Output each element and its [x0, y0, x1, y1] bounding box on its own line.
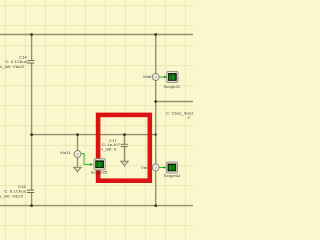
- node junction H1-V1: [30, 33, 33, 36]
- background canvas: [0, 0, 193, 240]
- label Vm11: [60, 150, 71, 155]
- signal wire Vm11 to Scope25: [81, 154, 93, 166]
- svg-text:Vm11: Vm11: [60, 150, 71, 155]
- ground below C17: [121, 161, 129, 167]
- label C17 values: [101, 138, 120, 152]
- label Scope25: [91, 169, 108, 174]
- svg-text:v_init: 0: v_init: 0: [101, 147, 117, 152]
- label C14 values: [0, 55, 27, 69]
- signal wire Vm6 to Scope41: [160, 76, 167, 79]
- wire C17 branch upper: [124, 135, 126, 144]
- wire V1 lower segment: [31, 193, 33, 206]
- svg-text:Scope25: Scope25: [91, 169, 108, 174]
- label Scope41: [163, 84, 180, 89]
- wire V2 lower segment: [155, 171, 157, 206]
- svg-text:v_init: Vdc/2: v_init: Vdc/2: [0, 193, 24, 198]
- node junction H4-V2: [154, 204, 157, 207]
- scope Scope42: [166, 162, 177, 173]
- node junction H3-V2: [155, 133, 157, 135]
- node junction H1-V2: [154, 33, 157, 36]
- wire H3 middle bus: [32, 134, 156, 136]
- label Scope42: [164, 173, 181, 178]
- voltmeter Vm6: [152, 74, 159, 81]
- capacitor C15 plates: [27, 190, 34, 192]
- wire H1 top bus: [0, 34, 193, 36]
- wire H2 right stub: [156, 101, 193, 103]
- svg-text:v:: v:: [188, 115, 191, 120]
- svg-text:Scope41: Scope41: [163, 84, 180, 89]
- node junction H3-C17: [123, 133, 126, 136]
- wire V1 middle segment: [31, 63, 33, 190]
- label Vm6: [143, 74, 152, 79]
- wire V2 upper segment: [155, 35, 157, 74]
- wire C17 branch lower: [124, 147, 126, 161]
- capacitor C14 plates: [27, 61, 34, 63]
- capacitor C17 plates: [121, 144, 128, 146]
- red highlight rectangle: [98, 115, 150, 181]
- scope Scope25: [94, 159, 105, 170]
- voltmeter Vm11: [74, 151, 81, 158]
- node junction H3-V1: [30, 133, 33, 136]
- node junction H2-V2: [154, 100, 157, 103]
- wire H4 bottom bus: [0, 205, 193, 207]
- ground below Vm11: [74, 167, 82, 173]
- label Vm12: [141, 165, 153, 170]
- svg-text:v_init: Vdc/2: v_init: Vdc/2: [0, 64, 24, 69]
- svg-text:Scope42: Scope42: [164, 173, 181, 178]
- wire Vm11 branch upper: [77, 135, 79, 151]
- label C Cbus_ma (capacitor right of view): [166, 110, 194, 119]
- wire Vm11 branch lower: [77, 158, 79, 168]
- node junction H3-Vm11: [76, 133, 79, 136]
- svg-text:Vm6: Vm6: [143, 74, 152, 79]
- signal wire Vm12 to Scope42: [159, 166, 166, 169]
- label C15 values: [0, 184, 27, 198]
- node junction H4-V1: [30, 204, 33, 207]
- voltmeter Vm12: [152, 164, 159, 171]
- wire V2 middle segment: [155, 81, 157, 165]
- wire V1 upper segment: [31, 35, 33, 61]
- scope Scope41: [167, 71, 178, 82]
